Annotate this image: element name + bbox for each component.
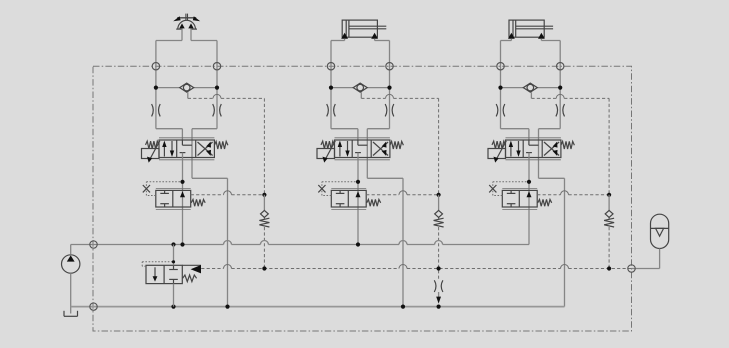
wire unloading valve bottom port bbox=[173, 284, 175, 307]
proportional solenoid of valve V2 bbox=[317, 149, 335, 159]
wire pump outlet to pressure line bbox=[70, 245, 72, 255]
work line right section 3 bbox=[559, 41, 561, 129]
elbow to valve ports section 2 bbox=[331, 128, 358, 130]
pressure feed line of section 2 bbox=[357, 153, 359, 245]
boundary port circles bbox=[152, 62, 159, 69]
counterbalance valve CB1 bbox=[156, 190, 191, 207]
accumulator A1 bbox=[651, 214, 669, 248]
semi-rotary actuator M1 bbox=[178, 20, 196, 29]
work line right section 2 bbox=[389, 41, 391, 129]
spring of counterbalance CB2 bbox=[367, 199, 381, 206]
tank line of section section 3 bbox=[538, 158, 540, 179]
proportional solenoid of valve V3 bbox=[488, 149, 506, 159]
tank return line bbox=[71, 306, 565, 308]
spring right of valve V1 bbox=[214, 141, 228, 149]
counterbalance valve CB2 bbox=[331, 190, 366, 207]
elbow to valve ports section 1 bbox=[156, 128, 183, 130]
node pilot tee of CB3 bbox=[527, 180, 531, 184]
node pilot gallery junctions bbox=[262, 266, 266, 270]
internal pilot line with plugged port of counterbalance CB2 bbox=[322, 195, 331, 197]
shuttle valve SH3 bbox=[501, 87, 524, 89]
tank line of section section 1 bbox=[191, 158, 193, 179]
work line left section 1 bbox=[155, 41, 157, 129]
rotary-union symbols section 1 bbox=[152, 104, 154, 116]
hydraulic cylinder C3 bbox=[509, 20, 544, 37]
remote pilot gallery (dashed) bbox=[201, 268, 223, 270]
spring left of valve V1 bbox=[146, 141, 160, 149]
pilot-operated check/relief CK1 bbox=[263, 195, 265, 211]
hydraulic cylinder C2 bbox=[342, 20, 377, 37]
internal pilot of unloading valve V4 bbox=[142, 265, 146, 267]
spring right of valve V3 bbox=[561, 141, 575, 149]
spring left of valve V3 bbox=[492, 141, 506, 149]
wires cylinder C2 to work lines bbox=[344, 39, 346, 41]
external pilot line of counterbalance CB3 bbox=[537, 194, 560, 196]
wires cylinder C3 to work lines bbox=[510, 39, 512, 41]
4/3 proportional directional valve V3 bbox=[506, 140, 561, 158]
spring left of valve V2 bbox=[321, 141, 335, 149]
node shuttle taps SH3 bbox=[498, 86, 502, 90]
node external pilot junction of CB3 bbox=[607, 193, 611, 197]
pilot line from shuttle SH1 to check line bbox=[187, 92, 189, 98]
wire unloading valve top port bbox=[173, 245, 175, 266]
work line right section 1 bbox=[216, 41, 218, 129]
work line left section 3 bbox=[500, 41, 502, 129]
wire accumulator to gallery bbox=[659, 249, 661, 269]
internal pilot line with plugged port of counterbalance CB3 bbox=[493, 195, 503, 197]
spring of counterbalance CB1 bbox=[191, 199, 205, 206]
manifold enclosure (dash-dot boundary) bbox=[93, 66, 632, 331]
proportional solenoid of valve V1 bbox=[142, 149, 160, 159]
spring of unloading valve V4 bbox=[183, 275, 197, 282]
orifice on bleed line CK2 bbox=[434, 280, 436, 292]
node pilot tee of CB1 bbox=[180, 180, 184, 184]
node shuttle taps SH1 bbox=[154, 86, 158, 90]
port arrows of cylinder C2 bbox=[341, 33, 348, 39]
node return junctions bbox=[171, 305, 175, 309]
spring right of valve V2 bbox=[390, 141, 404, 149]
pressure feed line of section 3 bbox=[528, 153, 530, 245]
pump P1 bbox=[61, 255, 79, 273]
rotary-union symbols section 3 bbox=[496, 104, 498, 116]
spring of counterbalance CB3 bbox=[538, 199, 552, 206]
node external pilot junction of CB1 bbox=[262, 193, 266, 197]
work line left section 2 bbox=[330, 41, 332, 129]
flow arrow into tank line bbox=[438, 292, 440, 297]
node shuttle taps SH2 bbox=[329, 86, 333, 90]
internal pilot line with plugged port of counterbalance CB1 bbox=[146, 195, 155, 197]
unloading valve V4 bbox=[146, 265, 182, 283]
shuttle valve SH2 bbox=[331, 87, 353, 89]
pilot solenoid triangle of unloading valve V4 bbox=[182, 264, 201, 266]
counterbalance valve CB3 bbox=[502, 190, 537, 207]
tank line of section section 2 bbox=[366, 158, 368, 179]
external pilot line of counterbalance CB1 bbox=[191, 194, 224, 196]
external pilot line of counterbalance CB2 bbox=[366, 194, 399, 196]
node pilot tee of CB2 bbox=[356, 180, 360, 184]
pilot line check CK1 to pilot gallery bbox=[263, 227, 265, 269]
shuttle valve SH1 bbox=[156, 87, 180, 89]
pilot line from shuttle SH2 to check line bbox=[360, 92, 362, 98]
elbow to valve ports section 3 bbox=[501, 128, 529, 130]
port arrows of cylinder C3 bbox=[508, 33, 515, 39]
pilot-operated check/relief CK3 bbox=[608, 195, 610, 211]
bleed line of check CK2 to tank bbox=[438, 227, 440, 279]
wire pump to tank bbox=[70, 273, 72, 313]
pilot line from shuttle SH3 to check line bbox=[530, 92, 532, 98]
node external pilot junction of CB2 bbox=[437, 193, 441, 197]
rotary-union symbols section 2 bbox=[327, 104, 329, 116]
oscillation arrows of actuator M1 bbox=[177, 17, 196, 19]
pressure supply line bbox=[71, 244, 224, 246]
4/3 proportional directional valve V2 bbox=[335, 140, 390, 158]
pressure feed line of section 1 bbox=[182, 153, 184, 245]
pilot-operated check/relief CK2 bbox=[438, 195, 440, 211]
wires actuator M1 to work lines bbox=[156, 40, 182, 42]
tank T1 bbox=[63, 311, 65, 317]
4/3 proportional directional valve V1 bbox=[159, 140, 214, 158]
pilot line check CK3 to pilot gallery bbox=[608, 227, 610, 269]
node pressure junctions bbox=[171, 242, 175, 246]
